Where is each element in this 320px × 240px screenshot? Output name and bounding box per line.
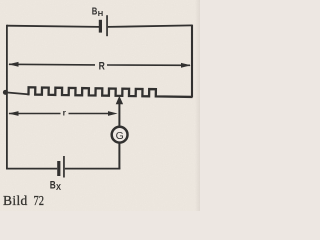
svg-text:G: G (116, 130, 124, 142)
svg-text:B: B (92, 7, 98, 18)
svg-text:72: 72 (34, 193, 45, 208)
svg-text:B: B (50, 179, 56, 191)
svg-text:R: R (99, 61, 105, 73)
svg-text:H: H (98, 9, 103, 18)
svg-text:X: X (56, 182, 61, 192)
svg-text:Bild: Bild (3, 193, 28, 208)
